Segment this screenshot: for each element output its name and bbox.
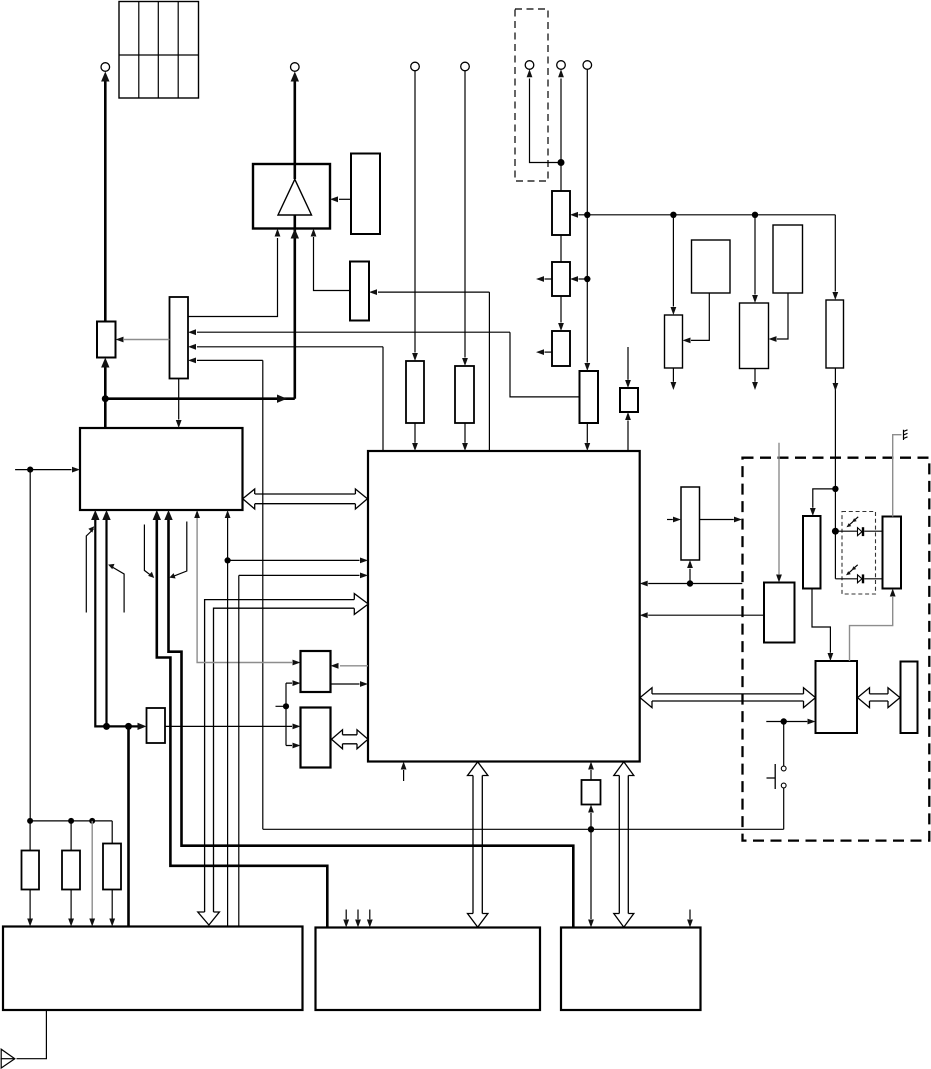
block X2 (codec 2) bbox=[301, 708, 331, 768]
wire rail to E1 bbox=[672, 215, 674, 307]
wire A1 to amp (arrow left) bbox=[339, 198, 351, 200]
wire net3 to TL input 3 + down to switch line bbox=[197, 360, 263, 829]
terminal T1 bbox=[101, 63, 110, 72]
big block CPU bbox=[368, 451, 640, 762]
wire M1 to CPU (arrow left) bbox=[648, 614, 764, 616]
wire net6 branch to CPU left bbox=[228, 559, 360, 561]
wire rail to G1 bbox=[754, 215, 756, 295]
wire sensor feed to M1 (gray) bbox=[778, 443, 780, 574]
wire T7 down to C1 bbox=[586, 70, 588, 363]
wire TL to S1 (gray arrow left) bbox=[124, 339, 170, 341]
wire junction A to amp line (thick arrow right) bbox=[105, 397, 294, 400]
resistor Rb bbox=[62, 851, 80, 890]
wire resistor top row bbox=[30, 821, 112, 851]
wire bias direct to BL (gray) bbox=[91, 821, 93, 919]
dangling arrows into BM bbox=[346, 910, 370, 920]
terminal T3 bbox=[411, 62, 420, 71]
chassis ref symbol bbox=[904, 430, 908, 440]
wire rail to BR bbox=[590, 829, 592, 919]
junction dot on ML input bbox=[27, 467, 33, 473]
dangling arrow G1 out bbox=[754, 369, 756, 382]
power rail to B1 (arrow left) and down to I1 bbox=[579, 215, 836, 292]
block Q1 (buffer) bbox=[147, 708, 166, 743]
block H1 (regulator 4) bbox=[773, 225, 803, 293]
resistor Rc bbox=[103, 844, 121, 890]
hollow bus arrow W7 (CPU to BR, vertical double) bbox=[619, 776, 628, 914]
wire I1 chain down to LED node bbox=[834, 368, 836, 489]
wire node to LED anodes bbox=[835, 489, 857, 579]
wire L1 to K1 (gray) bbox=[850, 597, 893, 661]
wire R2 to CPU bbox=[464, 423, 466, 443]
bundle mark 2 bbox=[111, 566, 125, 613]
block C1 (reset IC) bbox=[580, 371, 599, 423]
dashed group (photo interrupter) bbox=[842, 512, 876, 595]
keypad matrix block bbox=[119, 2, 199, 99]
wire net2 to TL input 2 + to CPU top bbox=[197, 347, 383, 451]
wire T7-line to B2 (arrow left) bbox=[579, 278, 588, 280]
wire K1 top to chassis ref (gray) bbox=[893, 435, 902, 517]
bundle mark 4 bbox=[172, 522, 187, 577]
bundle mark 3 bbox=[144, 525, 152, 577]
terminal T7 bbox=[583, 61, 592, 70]
junction A dot bbox=[102, 395, 109, 402]
block L1 (mechanism controller) bbox=[816, 661, 858, 733]
wire X1 to CPU (arrow right) bbox=[331, 683, 360, 685]
wire A2 to amp bottom right bbox=[314, 237, 351, 291]
hollow bus arrow W3 (X2 to CPU, double) bbox=[343, 735, 358, 744]
resistor Ra bbox=[22, 851, 40, 890]
wire stub to D1 top bbox=[627, 347, 629, 380]
wire bus Q to X2 bbox=[165, 725, 292, 727]
dashed group (mechanism unit) bbox=[743, 458, 930, 841]
wire node to J1 bbox=[813, 489, 836, 508]
LED diode lower bbox=[858, 575, 863, 583]
hollow bus arrow W1 (BL box to CPU, L-shaped) bbox=[205, 600, 355, 912]
wire F1 to E1 bbox=[691, 293, 709, 340]
hollow bus arrow W2 (ML to CPU, double) bbox=[255, 494, 356, 504]
wire net7 to CPU left and BL bbox=[239, 575, 360, 926]
wire Ra to BL bbox=[29, 890, 31, 919]
wire B1 to B2 bbox=[560, 235, 562, 262]
block P1 (reset gen) bbox=[582, 780, 601, 805]
dangling arrow E1 out bbox=[672, 368, 674, 382]
dangling arrow into BR bbox=[689, 910, 691, 920]
wire CPU to X1 (gray arrow left) bbox=[340, 665, 368, 667]
terminal T4 bbox=[461, 62, 470, 71]
block B2 (power sw 2) bbox=[552, 262, 570, 296]
wire H1 to G1 bbox=[777, 293, 788, 339]
block E1 (regulator 1) bbox=[665, 315, 683, 368]
block A1 (amp control) bbox=[351, 154, 380, 235]
wire T4 to R2 bbox=[464, 71, 466, 358]
bottom block BR (logic power) bbox=[561, 928, 701, 1011]
bottom block BL (analog power) bbox=[3, 927, 303, 1011]
block I1 (regulator 5) bbox=[826, 300, 844, 368]
wire ML out 6 down to BL bbox=[227, 518, 229, 927]
wire T6 down to B1 bbox=[560, 79, 562, 192]
wire C1 to CPU bbox=[586, 423, 588, 443]
wire ML out 2 to bus Q (med) bbox=[105, 518, 107, 726]
block N1 (level shifter) bbox=[681, 487, 700, 560]
block B1 (power sw 1) bbox=[552, 191, 570, 235]
dangling arrow B3 left bbox=[545, 351, 553, 353]
block R3 (motor) bbox=[901, 662, 918, 734]
wire TL bottom to ML top bbox=[178, 379, 180, 420]
wire ML out 5 to X1 (gray) bbox=[197, 518, 292, 663]
dashed group (line inputs) bbox=[515, 9, 548, 181]
block X1 (codec 1) bbox=[301, 651, 331, 692]
LED emission arrows lower bbox=[854, 565, 858, 569]
terminal T6 bbox=[557, 61, 566, 70]
wire T3 to R1 bbox=[414, 71, 416, 353]
stub and branch to X1/X2 bbox=[276, 683, 293, 745]
wire down to resistor row bbox=[29, 470, 31, 821]
wire ML out 4 stepped to BR (thick) bbox=[169, 518, 574, 928]
wire Rb to BL bbox=[70, 890, 72, 919]
wire BL to audio out triangle bbox=[17, 1010, 47, 1059]
block S1 (output filter) bbox=[97, 322, 116, 358]
hollow bus arrow W4 (CPU to L1, double) bbox=[652, 694, 804, 701]
wire CPU top to A2 (arrow left) bbox=[378, 292, 489, 451]
block F1 (regulator 2) bbox=[692, 240, 731, 293]
wire S1 to junction A (thick) bbox=[104, 366, 107, 428]
wire P1 to CPU bbox=[590, 770, 592, 780]
wire J1 to L1 bbox=[812, 589, 830, 653]
block A2 (amp driver) bbox=[350, 262, 369, 321]
hollow bus arrow W6 (CPU to BM, vertical double) bbox=[473, 776, 482, 914]
block J1 (LED driver) bbox=[803, 516, 821, 589]
wire B2 to B3 bbox=[560, 296, 562, 323]
wire ML out 1 to bus Q (med) bbox=[95, 518, 137, 726]
junction dot net6 bbox=[225, 557, 231, 563]
wire Rc to BL bbox=[111, 890, 113, 919]
pushbutton SW1 bbox=[783, 722, 785, 767]
wire net1 to TL input 1 + to C1 left bbox=[197, 332, 580, 397]
block K1 (photo detector) bbox=[883, 517, 902, 589]
block G1 (regulator 3) bbox=[740, 303, 769, 369]
wire TL to amp bottom left bbox=[188, 238, 278, 317]
resistor R1 bbox=[406, 361, 424, 423]
wire speaker out to terminal T1 (thick) bbox=[104, 80, 107, 322]
junction dots on bus Q bbox=[103, 723, 110, 730]
block ML (analog front end) bbox=[80, 428, 243, 510]
LED diode upper bbox=[858, 528, 863, 536]
dangling arrow into CPU bottom left bbox=[403, 770, 405, 781]
block B3 (power sw 3) bbox=[552, 331, 570, 366]
wire amp line vertical (thick) bbox=[293, 80, 296, 399]
hollow bus arrow W5 (L1 to R3, double) bbox=[870, 694, 889, 701]
wire N1 to dashed unit bbox=[700, 519, 734, 521]
bottom block BM (memory) bbox=[316, 928, 541, 1011]
arrowhead amp bottom center (thick up) bbox=[291, 229, 299, 239]
wire switch net to L1 bbox=[766, 721, 807, 723]
terminal T5 bbox=[525, 61, 534, 70]
wire unit rail to CPU (arrow left) with branch to N1 bbox=[648, 569, 742, 584]
LED emission arrows upper bbox=[854, 517, 858, 521]
bundle mark 1 bbox=[86, 529, 93, 613]
block TL (switch matrix) bbox=[170, 297, 189, 379]
amplifier block U1 bbox=[253, 164, 330, 229]
wire CPU to D1 bottom bbox=[627, 421, 629, 452]
wire T5 down to junction bbox=[530, 79, 562, 163]
resistor R2 bbox=[455, 366, 474, 423]
stub arrow into N1 bbox=[667, 519, 673, 521]
terminal T2 bbox=[291, 63, 300, 72]
wire input stub to ML left bbox=[15, 469, 71, 471]
block M1 (sensor amp) bbox=[764, 583, 795, 643]
dangling arrow B2 left bbox=[545, 278, 553, 280]
wire rail to P1 bbox=[590, 813, 592, 829]
wire ML out 3 stepped to BM (thick) bbox=[157, 518, 327, 928]
block D1 (clock) bbox=[620, 388, 638, 412]
wire R1 to CPU bbox=[414, 423, 416, 443]
wire long rail y829 switch to net3 bbox=[263, 828, 784, 830]
wire thick riser BL to bus Q bbox=[127, 726, 130, 926]
